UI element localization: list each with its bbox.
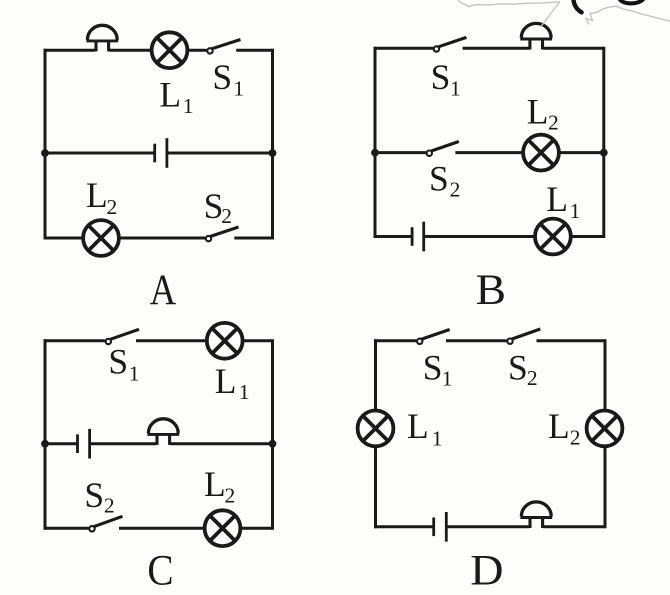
- wire D bottom: bell to corner: [543, 525, 605, 528]
- wire A top: corner to bell: [44, 49, 96, 52]
- wire A left side: [44, 49, 47, 240]
- electric bell (circuit D bottom): [520, 502, 552, 528]
- svg-text:S: S: [431, 57, 451, 97]
- wire A bottom: switch S2 to corner: [234, 237, 272, 240]
- stray ink stroke (cropped handwriting, open-paren shape): [573, 0, 581, 12]
- wire A middle: left node to battery: [45, 152, 155, 155]
- wire C top: corner to switch S1: [44, 339, 105, 342]
- junction node A-left: [41, 149, 49, 157]
- junction node C-left: [41, 440, 49, 448]
- svg-text:2: 2: [570, 426, 581, 450]
- switch S1 (circuit D): [417, 330, 450, 344]
- wire C right side: [271, 339, 274, 529]
- wire B bottom: battery to lamp L1: [424, 235, 536, 238]
- wire C bottom: switch S2 to lamp L2: [119, 527, 205, 530]
- label S1 (circuit D): [423, 348, 453, 391]
- label S2 (circuit D): [508, 347, 538, 390]
- wire B top: switch S1 to bell: [463, 47, 530, 50]
- wire C top: switch S1 to lamp L1: [136, 339, 207, 342]
- wire C top: lamp L1 to corner: [242, 339, 272, 342]
- wire D top: corner to switch S1: [374, 339, 416, 342]
- lamp L1 (circuit B): [535, 219, 571, 255]
- label L1 (circuit C): [215, 361, 250, 404]
- switch S2 (circuit D): [507, 329, 540, 344]
- wire B right side: [602, 47, 605, 238]
- svg-text:A: A: [150, 266, 177, 314]
- electric bell (circuit B top): [520, 23, 552, 49]
- svg-text:S: S: [84, 475, 104, 515]
- electric bell (circuit C middle): [147, 419, 179, 445]
- battery cell (circuit A): [155, 138, 167, 168]
- wire D left side lower: [374, 448, 377, 529]
- svg-text:1: 1: [183, 94, 194, 118]
- label L2 (circuit A): [86, 175, 117, 219]
- svg-text:L: L: [86, 175, 108, 215]
- wire C middle: left node to battery: [45, 442, 78, 445]
- svg-text:1: 1: [129, 362, 140, 386]
- svg-text:L: L: [407, 406, 429, 446]
- wire D right side upper: [604, 339, 607, 409]
- wire A right side: [271, 49, 274, 240]
- switch S1 (circuit C): [106, 329, 139, 344]
- wire D top: switch S2 to corner: [537, 339, 606, 342]
- wire B top: corner to switch S1: [374, 47, 434, 50]
- lamp L1 (circuit D, left branch): [358, 411, 394, 447]
- lamp L2 (circuit B): [523, 135, 559, 171]
- wire C middle: battery to bell: [90, 442, 157, 445]
- switch S2 (circuit C): [89, 516, 122, 531]
- electric bell (circuit A top): [86, 25, 118, 51]
- svg-text:L: L: [159, 74, 181, 114]
- wire D left side upper: [374, 339, 377, 409]
- svg-text:L: L: [546, 179, 568, 219]
- wire C bottom: lamp L2 to corner: [240, 527, 272, 530]
- svg-text:L: L: [215, 361, 237, 401]
- wire D bottom: battery to bell: [446, 525, 529, 528]
- wire D bottom: corner to battery: [374, 525, 434, 528]
- wire C bottom: corner to switch S2: [44, 527, 89, 530]
- svg-text:C: C: [147, 546, 173, 594]
- wire A top: bell to lamp L1: [109, 49, 152, 52]
- label S1 (circuit A): [212, 57, 244, 100]
- lamp L2 (circuit D, right branch): [587, 411, 623, 447]
- svg-text:2: 2: [104, 493, 115, 517]
- svg-text:1: 1: [570, 199, 581, 223]
- lamp L1 (circuit C): [207, 323, 243, 359]
- svg-text:2: 2: [107, 195, 118, 219]
- svg-text:1: 1: [442, 367, 453, 391]
- stray pencil scribble (diagonal toward bell of circuit B): [542, 3, 560, 26]
- svg-text:S: S: [423, 348, 443, 388]
- label L2 (circuit B): [527, 91, 559, 134]
- stray pencil scribble (top wavy line): [458, 1, 560, 7]
- label S2 (circuit A): [204, 186, 232, 228]
- wire B bottom: lamp L1 to corner: [571, 235, 604, 238]
- svg-text:L: L: [548, 406, 570, 446]
- stray pencil scribble (right zigzag and wave): [586, 6, 670, 24]
- junction node B-left: [371, 149, 379, 157]
- wire B middle: lamp L2 to right node: [559, 151, 604, 154]
- wire D top: switch S1 to switch S2: [446, 339, 507, 342]
- wire B middle: switch S2 to lamp L2: [455, 151, 523, 154]
- svg-text:S: S: [108, 341, 128, 381]
- wire B top: bell to corner: [543, 47, 604, 50]
- lamp L2 (circuit C): [205, 510, 241, 546]
- svg-text:2: 2: [450, 178, 461, 202]
- wire A top: switch S1 to corner: [236, 49, 272, 52]
- svg-text:1: 1: [450, 77, 461, 101]
- wire B middle: left node to switch S2: [375, 151, 426, 154]
- label S1 (circuit B): [431, 57, 461, 101]
- svg-text:1: 1: [233, 76, 244, 100]
- junction node A-right: [269, 149, 277, 157]
- svg-text:S: S: [508, 347, 528, 387]
- wire C middle: bell to right node: [170, 442, 272, 445]
- label L1 (circuit D): [407, 406, 443, 451]
- svg-text:L: L: [204, 464, 226, 504]
- switch S1 (circuit B): [434, 37, 467, 51]
- svg-text:2: 2: [225, 484, 236, 508]
- battery cell (circuit B): [412, 222, 424, 252]
- lamp L2 (circuit A): [83, 220, 119, 256]
- wire B left side: [374, 47, 377, 238]
- battery cell (circuit C): [78, 429, 90, 459]
- wire A bottom: lamp L2 to switch S2: [119, 237, 206, 240]
- wire C left side: [44, 339, 47, 529]
- stray ink stroke (cropped handwriting, bottom of a loop): [619, 0, 645, 3]
- svg-text:D: D: [470, 546, 503, 594]
- label L1 (circuit A): [159, 74, 193, 118]
- wire A middle: battery to right node: [167, 152, 273, 155]
- svg-text:1: 1: [239, 380, 250, 404]
- svg-text:1: 1: [432, 427, 443, 451]
- svg-text:S: S: [429, 159, 449, 199]
- svg-text:S: S: [212, 57, 232, 97]
- battery cell (circuit D): [434, 512, 447, 542]
- switch S2 (circuit B): [427, 142, 459, 156]
- svg-text:2: 2: [221, 204, 232, 228]
- switch S2 (circuit A): [206, 227, 239, 241]
- junction node B-right: [600, 149, 608, 157]
- svg-text:2: 2: [527, 366, 538, 390]
- svg-text:L: L: [527, 91, 549, 131]
- label S2 (circuit B): [429, 159, 460, 202]
- label L2 (circuit C): [204, 464, 235, 507]
- wire A bottom: corner to lamp L2: [44, 237, 84, 240]
- wire D right side lower: [604, 448, 607, 529]
- lamp L1 (circuit A): [152, 32, 188, 68]
- label L1 (circuit B): [546, 179, 580, 223]
- switch S1 (circuit A): [207, 40, 240, 54]
- label S1 (circuit C): [108, 341, 139, 385]
- label L2 (circuit D): [548, 406, 580, 450]
- svg-text:B: B: [476, 266, 506, 314]
- wire A top: lamp L1 to switch S1: [187, 49, 207, 52]
- label S2 (circuit C): [84, 475, 114, 518]
- wire B bottom: corner to battery: [374, 235, 413, 238]
- svg-text:2: 2: [548, 110, 559, 134]
- junction node C-right: [269, 440, 277, 448]
